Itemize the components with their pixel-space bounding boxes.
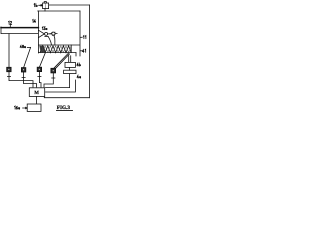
- bottom box 16a: [27, 104, 41, 111]
- stem M to bottom box: [36, 97, 38, 105]
- wire stirrer3 to M: [39, 77, 41, 87]
- leader arrow to pump: [39, 5, 43, 7]
- label 13: [52, 32, 55, 35]
- stirrer 3 stem with foot: [38, 72, 41, 77]
- wire: bottom return to M box: [44, 96, 89, 97]
- svg-text:FIG.3: FIG.3: [57, 105, 71, 111]
- valve V1 body: [65, 62, 75, 67]
- wire: second horizontal run: [38, 10, 80, 12]
- spout lip: [75, 53, 77, 56]
- slanted shaft to stirrer 3: [39, 53, 45, 68]
- label 13a: [42, 27, 47, 30]
- motor box M: [29, 88, 44, 97]
- bevel gear 13a (cone): [38, 30, 44, 37]
- wire: right border vertical: [89, 5, 91, 98]
- stirrer box 1: [7, 67, 11, 71]
- gear wheel 13 (circle): [45, 32, 48, 35]
- feed spout curve: [54, 35, 55, 45]
- stem valve to burner: [69, 67, 71, 70]
- wire: stub to label 13: [48, 33, 51, 35]
- stirrer box 2: [21, 68, 25, 72]
- stirrer 2 stem: [22, 72, 25, 77]
- shaft 12 (double horizontal line): [1, 27, 38, 29]
- wire M to burner riser: [46, 80, 76, 92]
- wire stirrer4 to M: [44, 78, 53, 87]
- wire stirrer2 to M: [24, 77, 37, 87]
- wire: inner right vertical 11: [79, 11, 81, 56]
- figure label FIG.3: [57, 105, 71, 111]
- burner element: [64, 70, 76, 73]
- screw (zigzag): [40, 46, 71, 53]
- label 16a: [14, 106, 19, 109]
- hopper rim tick: [45, 36, 48, 38]
- wire M to valve stem: [46, 87, 70, 89]
- label 41 (right of conveyor): [80, 50, 82, 52]
- screw back edge (reverse zigzag): [40, 46, 71, 53]
- wire: pump top output to right border: [49, 4, 90, 6]
- label 4a: [77, 75, 81, 78]
- label 1b: [34, 4, 37, 7]
- slanted shaft to stirrer 2: [24, 47, 31, 67]
- wire stirrer1 to M: [9, 76, 33, 87]
- screw drive mesh (dark patch): [39, 46, 46, 53]
- conveyor trough top line: [38, 44, 79, 46]
- stem burner down to M wire: [69, 74, 71, 88]
- label 12: [8, 21, 11, 24]
- valve pipe (double line): [69, 56, 71, 63]
- label 11: [80, 36, 82, 38]
- conveyor trough bottom line: [38, 52, 76, 54]
- stirrer box 3: [37, 67, 41, 71]
- label 14: [32, 19, 35, 22]
- wire: pump bottom stem: [44, 8, 46, 11]
- hopper left wall: [48, 37, 51, 45]
- chute (double diagonal) to stirrer 4: [54, 53, 70, 69]
- pump P1 (top component): [43, 2, 49, 9]
- stirrer shaft 1 (vertical from shaft 12): [8, 34, 10, 68]
- conveyor end divider: [70, 45, 72, 53]
- stirrer 1 stem: [7, 72, 10, 77]
- stirrer 4 stem with foot: [52, 73, 55, 78]
- stirrer box 4: [51, 68, 56, 73]
- label 4b: [77, 63, 81, 66]
- wire: vertical shaft 14 down to conveyor: [37, 11, 39, 53]
- svg-text:M: M: [34, 90, 39, 96]
- feed valve knob: [52, 32, 55, 35]
- label 4c with leader: [20, 45, 25, 48]
